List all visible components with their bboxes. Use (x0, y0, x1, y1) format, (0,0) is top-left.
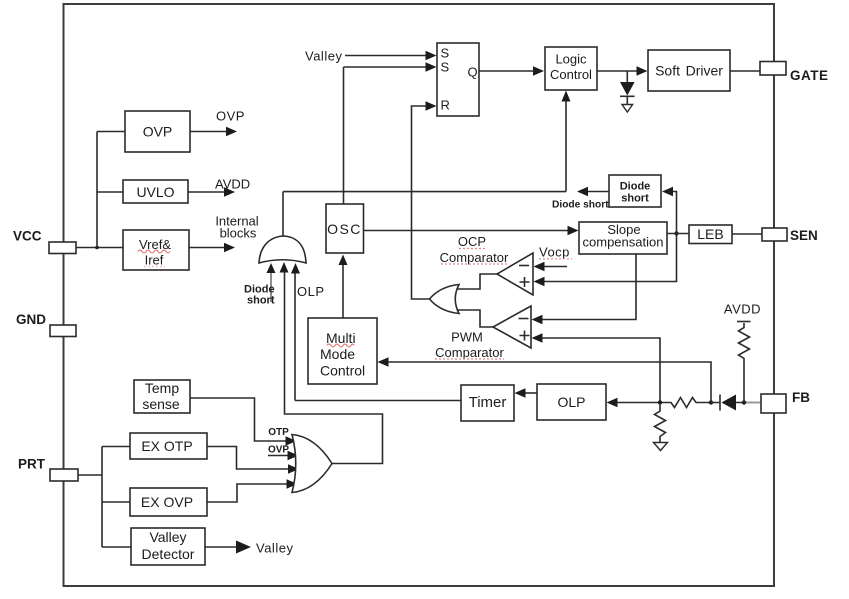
wire VCC branch vertical (96, 132, 98, 248)
comparator OCP (497, 253, 533, 295)
wire VCC feed to Vref (76, 246, 123, 250)
wire Vref output (189, 243, 235, 253)
svg-text:Iref: Iref (145, 253, 164, 268)
svg-text:Q: Q (468, 65, 478, 80)
wire protection OR output to internal OR (280, 262, 383, 464)
pin GND (16, 312, 76, 337)
wire Soft Driver to GATE (730, 70, 760, 72)
wire MMC to OSC (339, 255, 348, 319)
or-gate internal blocks dome (259, 236, 306, 263)
svg-text:OVP: OVP (143, 124, 173, 140)
wire second S input (344, 62, 437, 72)
svg-text:sense: sense (142, 396, 180, 412)
wire Vocp to OCP minus (534, 262, 568, 272)
wire Slope bottom to PWM minus (532, 254, 637, 324)
svg-text:Comparator: Comparator (440, 250, 509, 265)
svg-text:EX OTP: EX OTP (141, 438, 192, 454)
wire OVP input with label (268, 445, 299, 461)
wire to UVLO block (97, 191, 123, 193)
svg-text:short: short (247, 295, 275, 307)
pin PRT (18, 457, 78, 482)
flip-flop SR latch (437, 43, 479, 116)
wire main bus to logic control (283, 191, 566, 193)
block Timer (461, 385, 514, 421)
svg-text:Diode: Diode (620, 181, 651, 193)
diode to ground on gate drive (620, 71, 635, 112)
svg-text:Multi: Multi (326, 330, 356, 346)
svg-text:Timer: Timer (469, 394, 507, 411)
svg-text:UVLO: UVLO (136, 184, 174, 200)
block UVLO (123, 180, 188, 203)
svg-text:GND: GND (16, 312, 46, 327)
block Vref and Iref (123, 230, 189, 270)
spellcheck dots under Vocp (539, 258, 572, 260)
svg-text:VCC: VCC (13, 229, 42, 244)
wire PWM output to combine OR (457, 310, 494, 327)
block Multi Mode Control (308, 318, 377, 384)
block Valley Detector (131, 528, 205, 565)
svg-text:Vocp: Vocp (539, 245, 570, 260)
wire combine OR to R input (412, 101, 437, 299)
pin VCC (13, 229, 76, 254)
pin FB (761, 390, 810, 413)
wire LEB to SEN (732, 233, 762, 235)
pin SEN (762, 228, 818, 243)
block LEB (689, 225, 732, 244)
wire LEB node to OCP plus (534, 234, 677, 287)
svg-text:OVP: OVP (268, 445, 289, 456)
block EX OVP (130, 488, 207, 516)
label Vocp (539, 245, 570, 260)
block Soft Driver (648, 50, 730, 91)
svg-text:Control: Control (550, 67, 592, 82)
label OTP (268, 427, 289, 438)
wire LEB node to Diode short block (662, 187, 679, 236)
label AVDD (FB area) (724, 302, 761, 317)
node AVDD junction (742, 400, 746, 404)
block OVP (125, 111, 190, 152)
spellcheck squiggle under Vref (138, 250, 170, 253)
svg-text:PRT: PRT (18, 457, 46, 472)
svg-text:Diode short: Diode short (552, 200, 609, 211)
diode FB (711, 395, 744, 411)
wire S input / OSC vertical (343, 67, 345, 204)
svg-text:Comparator: Comparator (435, 345, 504, 360)
spellcheck squiggle under Multi (327, 344, 354, 347)
svg-text:GATE: GATE (790, 68, 829, 83)
svg-text:AVDD: AVDD (215, 177, 250, 192)
block Logic Control (545, 47, 597, 90)
label OLP (dome input) (297, 284, 325, 299)
block Diode short (609, 175, 661, 207)
svg-text:AVDD: AVDD (724, 302, 761, 317)
svg-text:OCP: OCP (458, 234, 486, 249)
label Diode short (left of block) (552, 200, 609, 211)
wire FB node to PWM plus (532, 333, 661, 402)
svg-text:Valley: Valley (305, 49, 342, 64)
wire Temp sense to OR input OTP (190, 398, 297, 446)
label Valley top (305, 49, 342, 64)
resistor AVDD pull-up (737, 322, 751, 403)
wire Diode short block output left (577, 187, 609, 197)
svg-text:S: S (441, 46, 450, 61)
or-gate protection (4-input) (292, 435, 332, 493)
wire OSC to Slope compensation (364, 226, 579, 236)
block OSC (326, 204, 364, 253)
svg-text:Valley: Valley (149, 529, 186, 545)
wire FB node to OLP block (607, 398, 661, 408)
wire OLP line Timer output to internal OR (291, 263, 461, 401)
block EX OTP (130, 433, 207, 459)
svg-text:OLP: OLP (557, 394, 585, 410)
svg-text:SEN: SEN (790, 228, 818, 243)
wire dome output up (282, 192, 284, 236)
spellcheck dots under Iref (144, 266, 165, 268)
svg-text:FB: FB (792, 390, 810, 405)
resistor divider bottom to ground (654, 403, 668, 451)
label Valley bottom (256, 541, 293, 556)
wire Valley to S input (345, 51, 437, 61)
svg-text:compensation: compensation (583, 235, 664, 250)
block Temp sense (134, 380, 190, 413)
wire FB node to Multi Mode Control (378, 357, 712, 402)
svg-text:Soft Driver: Soft Driver (655, 63, 723, 79)
wire FB pin to diode (gray) (744, 402, 761, 404)
wire OVP output (190, 127, 237, 137)
svg-text:Mode: Mode (320, 346, 355, 362)
block Slope compensation (579, 222, 667, 254)
svg-text:OTP: OTP (268, 427, 289, 438)
spellcheck dots under PWM Comparator (435, 358, 504, 360)
wire Logic Control bottom input from bus (562, 91, 571, 192)
or-gate comparator combine (430, 285, 460, 314)
wire to OVP block (97, 131, 125, 133)
wire OCP output to combine OR (457, 274, 498, 289)
spellcheck dots under OCP Comparator (441, 249, 507, 265)
pin GATE (760, 62, 829, 84)
wire EX OVP to OR (207, 479, 298, 502)
svg-text:Temp: Temp (145, 380, 179, 396)
svg-text:OVP: OVP (216, 109, 245, 124)
wire EX OTP to OR (207, 447, 299, 474)
svg-text:OLP: OLP (297, 284, 325, 299)
label Internal blocks (215, 214, 258, 241)
wire UVLO output (188, 187, 235, 197)
block OLP (537, 384, 606, 420)
wire Slope to LEB (667, 233, 689, 235)
wire Valley Detector output (205, 541, 251, 554)
svg-text:OSC: OSC (327, 221, 362, 237)
node FB divider (658, 400, 662, 404)
svg-text:Logic: Logic (555, 52, 587, 67)
label OCP Comparator (440, 234, 509, 265)
wire Logic Control to Soft Driver (597, 66, 648, 76)
svg-text:R: R (441, 98, 450, 113)
wire OLP block to Timer (515, 388, 538, 398)
label OVP output (216, 109, 245, 124)
svg-text:S: S (441, 60, 450, 75)
svg-text:EX OVP: EX OVP (141, 494, 193, 510)
wire Diode short input to internal OR (267, 263, 276, 302)
svg-text:Valley: Valley (256, 541, 293, 556)
svg-text:PWM: PWM (451, 330, 483, 345)
svg-text:Detector: Detector (142, 546, 195, 562)
label Diode short (dome input) (244, 284, 275, 307)
comparator PWM (493, 306, 531, 348)
label PWM Comparator (435, 330, 504, 361)
svg-text:short: short (621, 193, 649, 205)
svg-text:Control: Control (320, 363, 365, 379)
svg-text:LEB: LEB (697, 226, 723, 242)
wire PRT bus (78, 447, 131, 548)
resistor divider top (horizontal) (660, 398, 713, 408)
wire Q output to Logic Control (479, 66, 544, 76)
label AVDD output (215, 177, 250, 192)
svg-text:blocks: blocks (220, 226, 257, 241)
